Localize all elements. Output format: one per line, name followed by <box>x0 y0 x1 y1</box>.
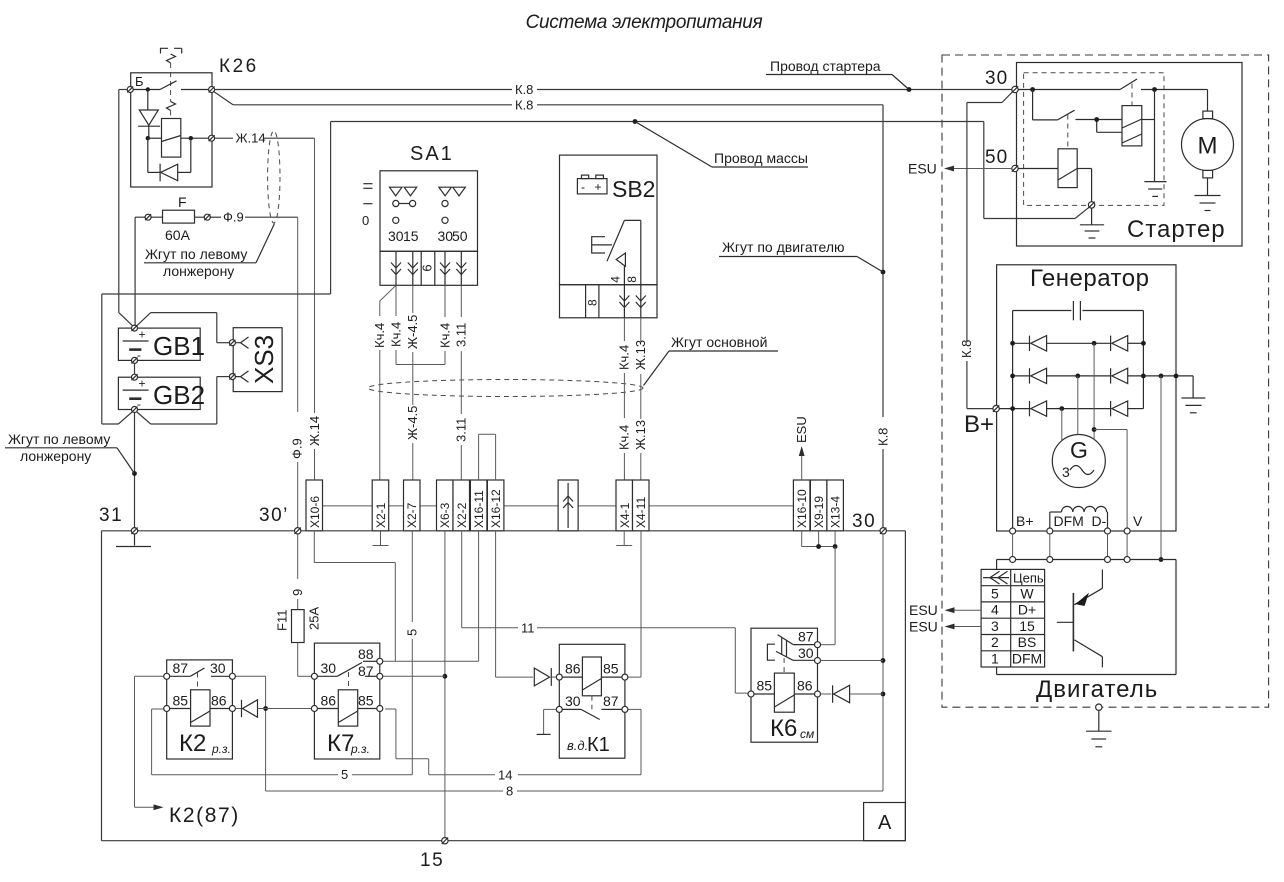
svg-text:-: - <box>581 180 585 194</box>
wire 11 from X2-2 <box>462 531 748 693</box>
wire 14 K1 87 <box>385 709 641 782</box>
X4-1 end stub <box>616 531 632 546</box>
wire 8 <box>235 534 883 799</box>
wire X16-10 link to X9-19 X13-4 <box>802 531 835 547</box>
K2 terminal 87 <box>164 660 189 679</box>
K7 terminal 88 <box>358 646 383 664</box>
connector X4-11 <box>633 480 650 531</box>
K6 coil <box>754 673 815 712</box>
junction row1 <box>1010 341 1146 346</box>
svg-text:+: + <box>139 328 146 342</box>
svg-text:30’: 30’ <box>259 505 289 526</box>
junction K7 87 to wire 15 <box>443 674 448 679</box>
svg-text:31: 31 <box>99 505 123 526</box>
svg-text:GB1: GB1 <box>153 331 205 361</box>
junction V tap <box>1092 427 1097 432</box>
svg-text:85: 85 <box>603 661 619 677</box>
wire K7 87 to node 15 <box>383 675 445 677</box>
K7 coil <box>317 690 376 726</box>
GB2 plus terminal <box>132 374 138 380</box>
svg-text:Генератор: Генератор <box>1030 265 1149 292</box>
K26 contact Б-30 <box>133 81 208 90</box>
engine pin DFM <box>1047 557 1053 563</box>
svg-text:X10-6: X10-6 <box>308 496 322 528</box>
jumper X16-11 to X16-12 <box>479 434 496 480</box>
K26 right terminal <box>209 87 215 93</box>
K2 contact <box>170 668 230 690</box>
svg-text:86: 86 <box>211 693 227 709</box>
svg-text:Жгут по двигателю: Жгут по двигателю <box>722 239 845 255</box>
junction node K26 coil left <box>146 136 150 140</box>
wire Кч.4 U-link bottom <box>396 364 445 366</box>
engine ground terminal <box>1096 704 1102 710</box>
svg-text:К.8: К.8 <box>515 82 533 97</box>
ground generator minus <box>1182 376 1206 413</box>
svg-text:Жгут основной: Жгут основной <box>671 334 767 350</box>
wire battery top bracket to XS3 <box>137 313 229 343</box>
K7 contact <box>317 661 376 690</box>
label Жгут по левому лонжерону top <box>144 224 275 280</box>
motor M <box>1182 90 1234 196</box>
generator left column <box>1012 311 1014 528</box>
ground starter solenoid <box>1144 182 1166 197</box>
svg-text:М: М <box>1198 133 1218 160</box>
svg-text:SB2: SB2 <box>612 176 655 202</box>
svg-text:Кч.4: Кч.4 <box>437 323 452 348</box>
svg-text:86: 86 <box>321 693 337 709</box>
svg-text:К2(87): К2(87) <box>169 804 240 827</box>
starter box <box>1017 63 1243 247</box>
wire X4-11 to K1 85 <box>628 531 641 677</box>
diode row3 left <box>1030 401 1047 416</box>
svg-text:50: 50 <box>452 228 468 244</box>
svg-text:14: 14 <box>498 767 512 782</box>
wire battery minus left loop <box>102 294 331 424</box>
svg-text:50: 50 <box>985 147 1008 168</box>
XS3 lower terminal <box>229 371 248 382</box>
wire Кч.4 U-link right <box>437 285 452 364</box>
fuse F 60A row <box>135 194 221 243</box>
svg-text:+: + <box>139 377 146 391</box>
svg-text:Ф.9: Ф.9 <box>223 210 244 225</box>
diode row3 right <box>1111 401 1128 416</box>
svg-text:В+: В+ <box>1016 513 1034 529</box>
svg-text:X16-10: X16-10 <box>795 489 809 528</box>
svg-text:30: 30 <box>438 228 454 244</box>
label Жгут по двигателю <box>719 239 883 272</box>
svg-text:60А: 60А <box>165 227 191 243</box>
svg-text:Ж.14: Ж.14 <box>307 416 322 446</box>
svg-text:К2: К2 <box>179 730 206 757</box>
phase lead 1 <box>1061 409 1063 441</box>
svg-text:К26: К26 <box>219 56 259 77</box>
svg-text:А: А <box>878 812 892 834</box>
svg-text:Кч.4: Кч.4 <box>388 322 403 347</box>
svg-text:X16-11: X16-11 <box>472 490 486 528</box>
terminal 15 <box>420 838 448 872</box>
K7 terminal 85 <box>358 693 383 712</box>
svg-text:В+: В+ <box>964 411 994 438</box>
junction row2 <box>1010 374 1178 379</box>
GB1 plus terminal <box>132 325 138 331</box>
svg-text:Система электропитания: Система электропитания <box>526 12 763 33</box>
K2 terminal 85 <box>164 693 189 712</box>
battery switch SB2 <box>560 155 658 318</box>
svg-text:X4-11: X4-11 <box>634 497 648 528</box>
generator terminal labels <box>1016 513 1143 529</box>
table row 3 15 <box>991 618 1035 634</box>
ESU arrow starter 50 <box>908 161 1012 177</box>
starter contact 1 <box>1018 79 1204 106</box>
ground starter relay <box>1080 208 1104 238</box>
wire K.8 to generator B+ <box>959 92 1012 409</box>
K1 terminal 30 <box>556 693 580 712</box>
svg-text:Ж.13: Ж.13 <box>633 340 648 370</box>
diode row2 left <box>1030 368 1047 383</box>
svg-text:Кч.4: Кч.4 <box>372 323 387 348</box>
X2-1 end stub <box>373 531 389 546</box>
rectifier row 2 <box>1013 375 1194 377</box>
label Жгут основной <box>644 334 779 386</box>
SA1 contacts row I <box>393 200 448 206</box>
svg-text:X4-1: X4-1 <box>618 502 632 528</box>
diode row1 right <box>1111 336 1128 351</box>
generator terminal V pin <box>1124 528 1130 534</box>
K1 terminal 87 <box>603 693 628 712</box>
relay K6 box <box>751 628 818 742</box>
svg-text:9: 9 <box>290 589 305 596</box>
terminal 30 <box>852 511 886 534</box>
svg-text:30: 30 <box>388 228 404 244</box>
svg-text:30: 30 <box>798 645 814 661</box>
diode VD K2 86 <box>235 700 311 717</box>
svg-text:SA1: SA1 <box>410 143 454 165</box>
junction K6 86 diode <box>881 692 886 697</box>
frame box bottom edge <box>102 840 906 842</box>
terminal 30prime <box>259 505 301 534</box>
generator box <box>997 265 1176 531</box>
XS3 upper terminal <box>229 337 248 348</box>
svg-text:D+: D+ <box>1018 602 1036 618</box>
rectifier row 3 <box>996 408 1144 410</box>
svg-text:V: V <box>1133 513 1143 529</box>
junction Жгут по двигателю <box>881 270 886 275</box>
wire generator minus to engine <box>1160 376 1162 560</box>
SA1 pin arrow 1 <box>391 251 401 285</box>
junction X13-4 <box>833 544 838 549</box>
frame marker A box <box>864 803 906 841</box>
svg-text:DFM: DFM <box>1012 651 1042 667</box>
label Провод массы <box>635 122 808 168</box>
svg-text:5: 5 <box>991 585 999 601</box>
svg-text:К.8: К.8 <box>515 97 533 112</box>
wire coil row <box>148 137 209 139</box>
terminal 31 <box>99 505 138 534</box>
svg-text:Кч.4: Кч.4 <box>617 345 632 370</box>
wire X13-4 down to K6 87 <box>821 547 835 645</box>
starter inner dashed box <box>1024 73 1164 206</box>
junction starter 30 <box>1030 87 1035 92</box>
svg-text:30: 30 <box>565 693 581 709</box>
K6 terminal 85 <box>748 678 772 698</box>
connector X16-10 <box>793 480 810 531</box>
junction K6 30 <box>881 658 886 663</box>
svg-text:8: 8 <box>506 784 513 799</box>
wire 3.11 to X2-2 <box>454 285 469 480</box>
wire Ж.14 horizontal <box>215 131 315 146</box>
junction engine ground rail <box>1159 557 1164 562</box>
K1 30 ground <box>537 709 557 734</box>
svg-text:Кч.4: Кч.4 <box>617 425 632 450</box>
diode VD K6 86 <box>821 685 884 702</box>
svg-text:5: 5 <box>405 629 420 636</box>
SB2 push switch <box>592 220 641 284</box>
K7 terminal 87 <box>358 663 383 679</box>
K26 coil <box>162 119 181 158</box>
svg-text:К1: К1 <box>587 734 610 756</box>
svg-text:Ж-4.5: Ж-4.5 <box>405 315 420 349</box>
connector X2-1 <box>372 480 389 531</box>
starter contact 2 <box>1033 90 1075 149</box>
starter ground terminal <box>1088 202 1094 208</box>
connector spare with chevron <box>558 480 578 531</box>
svg-text:лонжерону: лонжерону <box>163 263 234 279</box>
ESU arrow row D+ <box>909 602 981 618</box>
ground at 31 <box>116 534 151 547</box>
svg-text:2: 2 <box>991 634 999 650</box>
svg-text:X2-1: X2-1 <box>374 502 388 528</box>
engine pin D- <box>1105 557 1111 563</box>
K6 terminal 87 <box>798 629 821 648</box>
wire Ж.14 vertical to X10-6 <box>307 138 322 480</box>
junction solenoid tap <box>1094 117 1099 122</box>
svg-text:Стартер: Стартер <box>1127 216 1226 243</box>
svg-text:4: 4 <box>609 276 623 283</box>
svg-text:87: 87 <box>603 693 619 709</box>
wire 5 vertical from X2-7 <box>405 531 420 775</box>
svg-text:8: 8 <box>625 276 639 283</box>
connector X2-2 <box>453 480 470 531</box>
svg-text:25А: 25А <box>307 607 322 630</box>
generator terminal DFM pin <box>1047 528 1053 534</box>
svg-text:1: 1 <box>991 651 999 667</box>
wire масса horizontal <box>331 122 984 295</box>
label Жгут по левому лонжерону bottom <box>5 431 135 474</box>
svg-text:X2-2: X2-2 <box>455 502 469 528</box>
GB2 minus terminal <box>132 407 138 413</box>
svg-text:X6-3: X6-3 <box>438 502 452 528</box>
junction Провод стартера <box>907 87 912 92</box>
svg-text:W: W <box>1020 585 1034 601</box>
label Провод стартера <box>766 58 909 90</box>
K6 terminal 86 <box>797 678 821 698</box>
K7 terminal 30 <box>311 660 336 679</box>
svg-text:Ф.9: Ф.9 <box>290 438 305 459</box>
svg-text:5: 5 <box>341 767 348 782</box>
K2 terminal 30 <box>210 660 235 679</box>
wires generator to engine pins <box>1013 534 1128 557</box>
diode row1 left <box>1030 336 1047 351</box>
svg-text:11: 11 <box>521 620 535 635</box>
starter terminal 50 <box>985 147 1018 172</box>
SB2 battery icon <box>577 175 607 194</box>
starter solenoid wires <box>1076 120 1155 133</box>
svg-text:87: 87 <box>173 660 189 676</box>
svg-text:85: 85 <box>358 693 374 709</box>
engine connector table <box>981 569 1045 667</box>
wire solenoid to ground <box>1154 90 1156 182</box>
ground engine <box>1086 710 1111 746</box>
svg-text:Ж.14: Ж.14 <box>236 131 266 146</box>
wire 15 from X6-3 <box>444 531 446 838</box>
svg-text:GB2: GB2 <box>153 380 205 410</box>
svg-text:87: 87 <box>798 629 814 645</box>
wire V tap <box>1094 430 1127 528</box>
svg-text:Б: Б <box>135 74 144 89</box>
connector X13-4 <box>827 480 844 531</box>
svg-text:XS3: XS3 <box>249 335 279 384</box>
fuse F11 25A <box>275 607 322 643</box>
svg-text:6: 6 <box>420 264 435 271</box>
svg-text:85: 85 <box>757 678 773 694</box>
svg-text:Провод массы: Провод массы <box>714 150 808 166</box>
wire Ж-4.5 to X2-7 <box>405 285 420 480</box>
stator G <box>1052 435 1105 488</box>
SA1 position marks II I 0 <box>362 184 373 228</box>
svg-text:F11: F11 <box>275 610 290 631</box>
svg-text:86: 86 <box>565 661 581 677</box>
junction row3 <box>1010 406 1064 411</box>
wire К.8 second <box>214 92 883 113</box>
K1 terminal 85 <box>603 661 628 681</box>
svg-text:ESU: ESU <box>909 618 938 634</box>
wire battery bottom bracket to XS3 <box>137 377 229 424</box>
K26 terminal Ж.14 <box>209 135 215 141</box>
svg-text:X16-12: X16-12 <box>489 489 503 528</box>
wire K6 30 to bus <box>821 660 884 662</box>
battery GB1 <box>118 328 205 363</box>
frame box left edge <box>101 531 103 841</box>
frame box right edge <box>904 531 906 841</box>
table row 2 BS <box>991 634 1036 650</box>
svg-text:BS: BS <box>1018 634 1037 650</box>
field winding DFM D- <box>1050 506 1108 527</box>
connector X9-19 <box>810 480 827 531</box>
SA1 pin arrow 4 <box>456 251 466 285</box>
svg-text:Ж.13: Ж.13 <box>633 420 648 450</box>
relay K26 box <box>131 56 259 187</box>
phase lead 3 <box>1093 343 1095 440</box>
wire Кч.4 SB2 to X4-1 <box>617 318 632 480</box>
connector XS3 <box>233 328 282 392</box>
K1 coil <box>562 657 622 709</box>
wire 5 horizontal <box>152 767 413 782</box>
svg-text:X9-19: X9-19 <box>812 496 826 528</box>
wire Ж.13 SB2 to X4-11 <box>633 318 648 480</box>
SA1 terminal labels 30 15 30 50 <box>388 228 468 244</box>
svg-text:К6: К6 <box>770 715 797 742</box>
generator right column <box>1142 311 1144 409</box>
svg-text:X13-4: X13-4 <box>829 496 843 528</box>
rectifier row 1 <box>1013 342 1144 344</box>
starter relay coil <box>1018 149 1091 202</box>
diode VD K1 86 <box>534 668 556 686</box>
SB2 pin arrow 2 <box>636 285 646 318</box>
engine pin B+ <box>1010 557 1016 563</box>
svg-text:ESU: ESU <box>794 416 809 443</box>
svg-text:см: см <box>800 727 814 741</box>
svg-text:30: 30 <box>210 660 226 676</box>
K26 freewheel diode <box>148 138 191 181</box>
junction harness lonzheron <box>132 471 137 476</box>
diode row2 right <box>1111 368 1128 383</box>
K7 terminal 86 <box>311 693 336 712</box>
svg-text:0: 0 <box>362 213 369 228</box>
svg-text:Двигатель: Двигатель <box>1036 676 1158 703</box>
table row 5 W <box>991 585 1034 601</box>
svg-text:15: 15 <box>420 850 444 871</box>
svg-text:3.11: 3.11 <box>454 323 469 347</box>
wire 9 with fuse F11 <box>290 534 305 610</box>
wire GB2 minus down to 31 <box>134 413 136 528</box>
svg-text:3: 3 <box>1062 464 1070 480</box>
ESU arrow row 15 <box>909 618 981 634</box>
rail 31 to 30 <box>102 530 906 532</box>
starter terminal 30 <box>985 68 1018 93</box>
wire F11 to K7 30 <box>298 643 312 677</box>
svg-text:ESU: ESU <box>909 602 938 618</box>
svg-text:30: 30 <box>985 68 1008 89</box>
K26 latch actuator <box>161 48 182 118</box>
svg-text:Жгут по левому: Жгут по левому <box>8 431 110 447</box>
junction Провод массы <box>633 119 638 124</box>
GB1 minus terminal <box>132 357 138 363</box>
svg-text:+: + <box>595 180 602 194</box>
wire X16-11 to K7 88 <box>383 531 479 662</box>
svg-text:Цепь: Цепь <box>1013 571 1044 586</box>
svg-text:G: G <box>1070 437 1088 463</box>
SB2 pin arrow 1 <box>619 285 629 318</box>
harness ellipse main <box>368 380 643 397</box>
generator terminal D- pin <box>1105 528 1111 534</box>
wire GB1-GB2 series <box>134 363 136 374</box>
wire Кч.4 to X2-1 <box>372 285 396 480</box>
K2 terminal 86 <box>211 693 235 712</box>
table header chevron <box>983 571 1009 584</box>
wire X10-6 to K7 88 node <box>314 531 395 662</box>
fuse F right terminal <box>204 214 210 220</box>
engine box <box>997 560 1176 675</box>
connector X2-7 <box>404 480 421 531</box>
wire масса to starter ground <box>984 122 1089 219</box>
svg-text:DFM: DFM <box>1054 513 1084 529</box>
K26 terminal Б <box>127 87 133 93</box>
K26 zener diode <box>138 90 160 139</box>
svg-text:лонжерону: лонжерону <box>20 448 91 464</box>
svg-text:85: 85 <box>173 693 189 709</box>
wire Кч.4 U-link left <box>388 285 403 364</box>
svg-text:р.з.: р.з. <box>211 742 231 756</box>
connector X10-6 <box>306 480 323 531</box>
junction X9-19 <box>816 544 821 549</box>
table row 1 DFM <box>991 651 1042 667</box>
svg-text:3.11: 3.11 <box>454 418 469 442</box>
ignition switch SA1 <box>380 143 478 285</box>
connector X16-11 <box>470 480 487 531</box>
junction node K26 coil right <box>189 136 193 140</box>
svg-text:3: 3 <box>991 618 999 634</box>
generator capacitor <box>1013 301 1144 320</box>
